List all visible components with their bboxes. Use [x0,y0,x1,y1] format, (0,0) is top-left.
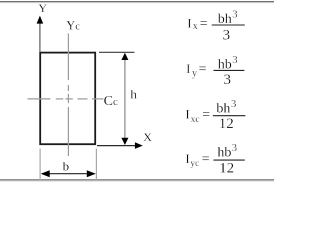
svg-text:x: x [193,21,198,32]
X axis arrowhead [135,142,143,149]
svg-text:12: 12 [219,116,234,132]
svg-text:3: 3 [232,9,237,20]
svg-text:=: = [202,107,210,122]
h dimension line [124,54,126,144]
svg-text:I: I [186,61,190,76]
svg-text:Cc: Cc [104,94,118,109]
svg-text:hb: hb [218,57,232,72]
svg-text:X: X [143,130,152,144]
svg-text:=: = [199,62,207,77]
svg-text:bh: bh [218,12,232,27]
formula Ix = bh^3/3 [187,9,245,43]
b dimension left extension line [39,149,41,181]
svg-text:h: h [130,87,137,102]
svg-text:=: = [202,152,210,167]
rectangle section outline [40,53,95,145]
svg-text:y: y [192,68,197,79]
svg-text:3: 3 [231,99,236,110]
formula Ixc = bh^3/12 [185,99,245,132]
svg-text:I: I [187,16,191,31]
formula Iyc = hb^3/12 [185,143,244,176]
svg-text:12: 12 [219,160,234,176]
svg-text:xc: xc [191,115,200,125]
centroid horizontal axis Xc (centerline) [28,98,104,100]
centroid vertical axis Yc (centerline) [67,34,69,157]
b dim left arrowhead [41,170,50,177]
h dim bottom arrowhead [121,138,128,145]
svg-text:=: = [200,17,208,32]
svg-text:3: 3 [224,72,232,88]
svg-text:hb: hb [217,146,231,161]
h dim top arrowhead [121,53,128,60]
h dimension top extension line [99,51,135,53]
svg-text:Yc: Yc [66,18,80,32]
svg-text:Y: Y [38,1,47,15]
svg-text:3: 3 [232,55,237,66]
formula Iy = hb^3/3 [186,55,244,88]
svg-text:3: 3 [232,143,237,154]
Y axis arrowhead [37,16,44,24]
Y axis line [39,23,41,52]
svg-text:I: I [185,151,189,166]
svg-text:yc: yc [190,159,199,169]
h dimension bottom extension line / X axis line [97,145,136,147]
top border [0,2,274,3]
svg-text:b: b [63,158,70,173]
b dimension right extension line [95,149,97,181]
svg-text:I: I [185,106,189,121]
bottom border [0,180,274,181]
b dimension line [42,173,95,175]
b dim right arrowhead [87,170,96,177]
svg-text:bh: bh [216,102,230,117]
svg-text:3: 3 [223,27,231,43]
